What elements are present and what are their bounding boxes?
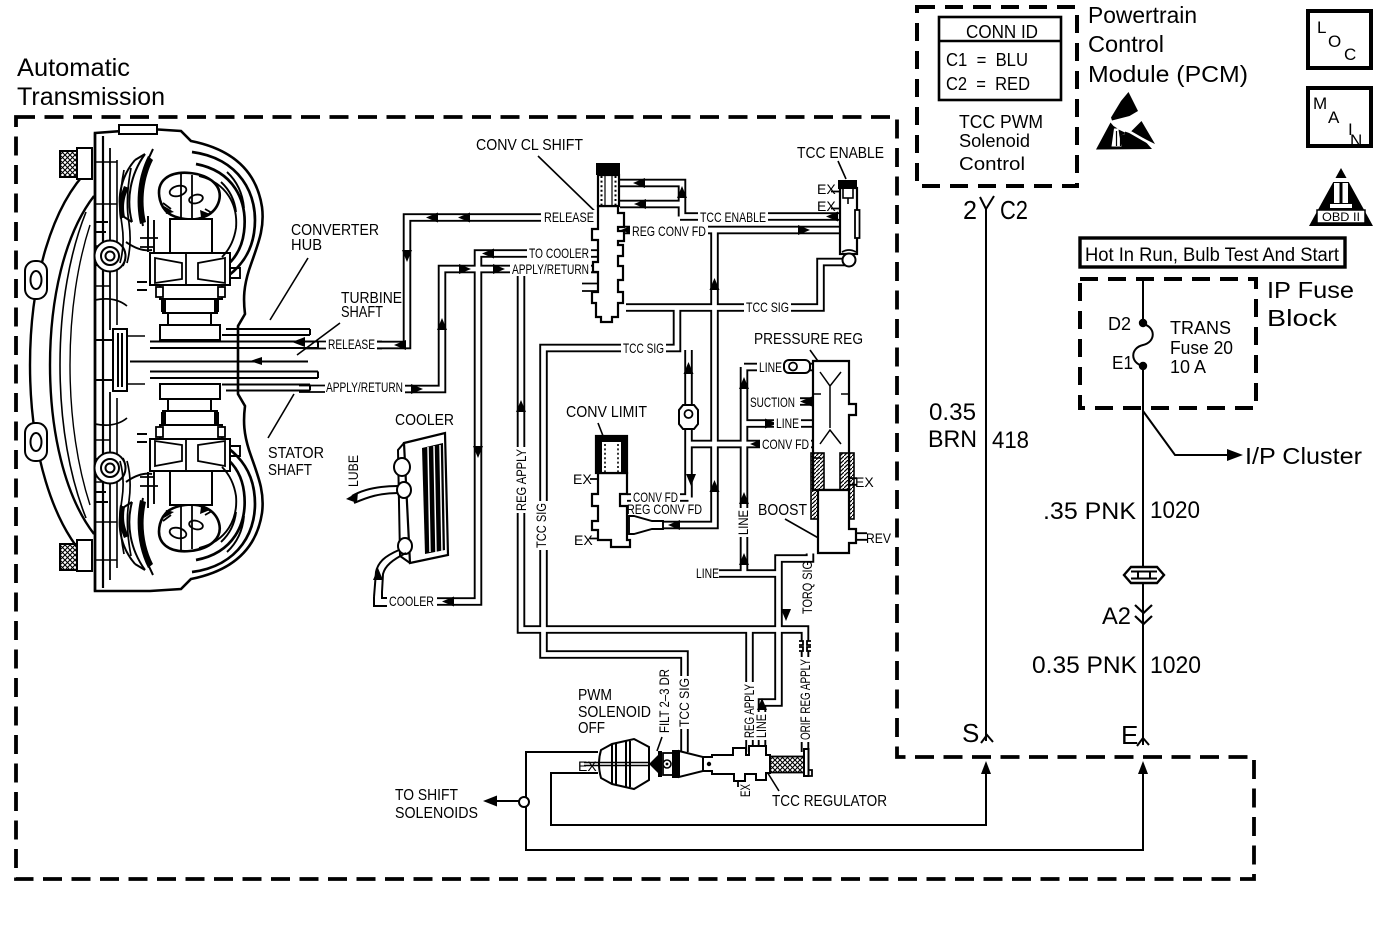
svg-text:I/P Cluster: I/P Cluster [1245, 443, 1362, 469]
svg-text:N: N [1350, 131, 1362, 150]
svg-text:Hot In Run, Bulb Test And Star: Hot In Run, Bulb Test And Start [1085, 245, 1340, 266]
svg-text:SHAFT: SHAFT [341, 304, 383, 321]
svg-text:LINE: LINE [753, 714, 769, 738]
svg-text:O: O [1328, 32, 1341, 51]
svg-text:418: 418 [992, 427, 1029, 454]
svg-text:Module (PCM): Module (PCM) [1088, 61, 1248, 87]
svg-text:LINE: LINE [759, 359, 782, 375]
svg-text:SUCTION: SUCTION [750, 394, 795, 410]
svg-text:HUB: HUB [291, 237, 322, 254]
svg-text:M: M [1313, 94, 1327, 113]
svg-text:EX: EX [573, 471, 592, 487]
svg-text:Control: Control [959, 154, 1025, 174]
svg-text:A2: A2 [1102, 603, 1131, 630]
svg-text:OFF: OFF [578, 720, 605, 737]
svg-text:TCC REGULATOR: TCC REGULATOR [772, 793, 887, 810]
svg-text:LINE: LINE [735, 510, 751, 535]
svg-text:TO SHIFT: TO SHIFT [395, 787, 458, 804]
svg-text:CONV CL SHIFT: CONV CL SHIFT [476, 137, 583, 154]
svg-text:IP Fuse: IP Fuse [1267, 277, 1354, 303]
svg-text:0.35: 0.35 [929, 399, 976, 426]
svg-text:1020: 1020 [1150, 497, 1200, 524]
svg-text:TCC SIG: TCC SIG [676, 678, 692, 727]
svg-text:REG APPLY: REG APPLY [513, 448, 529, 511]
svg-text:TCC SIG: TCC SIG [533, 503, 549, 548]
svg-text:CONN ID: CONN ID [966, 22, 1038, 42]
svg-text:1020: 1020 [1150, 652, 1201, 679]
svg-text:LINE: LINE [776, 415, 799, 431]
svg-text:L: L [1317, 18, 1326, 37]
svg-text:E1: E1 [1112, 353, 1133, 373]
svg-text:EX: EX [855, 474, 874, 490]
svg-text:TCC SIG: TCC SIG [746, 299, 789, 315]
svg-text:TCC ENABLE: TCC ENABLE [700, 209, 766, 225]
svg-text:FILT 2–3 DR: FILT 2–3 DR [656, 669, 672, 733]
svg-text:COOLER: COOLER [389, 593, 434, 609]
svg-text:TCC PWM: TCC PWM [959, 112, 1043, 132]
svg-text:BRN: BRN [928, 426, 977, 453]
svg-text:C1 = BLU: C1 = BLU [946, 50, 1028, 70]
svg-text:CONV FD: CONV FD [762, 436, 809, 452]
svg-text:Control: Control [1088, 31, 1164, 57]
svg-text:Transmission: Transmission [17, 83, 165, 111]
svg-text:10 A: 10 A [1170, 357, 1206, 377]
svg-text:.35 PNK: .35 PNK [1043, 498, 1136, 525]
svg-text:CONV LIMIT: CONV LIMIT [566, 404, 647, 421]
svg-text:TRANS: TRANS [1170, 318, 1231, 338]
svg-text:REG CONV FD: REG CONV FD [632, 223, 706, 239]
svg-text:PWM: PWM [578, 687, 612, 704]
svg-text:OBD II: OBD II [1322, 210, 1360, 224]
svg-text:ORIF REG APPLY: ORIF REG APPLY [797, 659, 813, 740]
svg-text:E: E [1121, 720, 1138, 750]
svg-text:RELEASE: RELEASE [328, 336, 375, 352]
svg-text:TCC SIG: TCC SIG [623, 340, 664, 356]
svg-text:Automatic: Automatic [17, 54, 130, 82]
svg-text:REV: REV [866, 530, 892, 546]
svg-text:Fuse 20: Fuse 20 [1170, 338, 1233, 358]
svg-text:APPLY/RETURN: APPLY/RETURN [326, 379, 403, 395]
svg-text:SHAFT: SHAFT [268, 462, 312, 479]
svg-text:APPLY/RETURN: APPLY/RETURN [512, 261, 589, 277]
svg-text:REG CONV FD: REG CONV FD [627, 501, 702, 517]
svg-text:C: C [1344, 45, 1356, 64]
svg-text:Solenoid: Solenoid [959, 131, 1030, 151]
svg-text:SOLENOIDS: SOLENOIDS [395, 805, 478, 822]
svg-text:C2: C2 [1000, 195, 1028, 225]
svg-text:S: S [962, 718, 979, 748]
svg-text:Powertrain: Powertrain [1088, 2, 1197, 28]
svg-text:2: 2 [963, 195, 977, 225]
svg-text:SOLENOID: SOLENOID [578, 704, 651, 721]
svg-text:COOLER: COOLER [395, 412, 454, 429]
svg-text:LINE: LINE [696, 565, 719, 581]
svg-text:EX: EX [817, 198, 836, 214]
svg-text:TORQ SIG: TORQ SIG [799, 561, 815, 614]
svg-text:RELEASE: RELEASE [544, 209, 594, 225]
svg-text:0.35 PNK: 0.35 PNK [1032, 652, 1137, 679]
svg-text:EX: EX [817, 181, 836, 197]
svg-text:EX: EX [737, 784, 753, 797]
svg-text:PRESSURE REG: PRESSURE REG [754, 331, 863, 348]
svg-text:TCC ENABLE: TCC ENABLE [797, 145, 884, 162]
svg-text:Block: Block [1267, 305, 1338, 331]
svg-text:C2 = RED: C2 = RED [946, 74, 1030, 94]
svg-text:A: A [1328, 108, 1340, 127]
svg-text:LUBE: LUBE [345, 455, 361, 487]
svg-text:D2: D2 [1108, 314, 1131, 334]
svg-text:STATOR: STATOR [268, 445, 324, 462]
svg-text:EX: EX [574, 532, 593, 548]
svg-text:TO COOLER: TO COOLER [529, 245, 589, 261]
svg-text:BOOST: BOOST [758, 502, 807, 519]
